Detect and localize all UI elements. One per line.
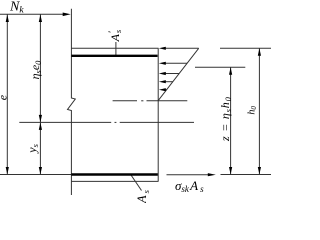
svg-text:e: e [0, 94, 9, 100]
svg-text:Nk: Nk [9, 0, 24, 16]
svg-text:ηse0: ηse0 [28, 60, 43, 80]
svg-text:σskAs: σskAs [175, 178, 204, 194]
svg-text:As: As [135, 189, 151, 203]
svg-text:A′s: A′s [108, 29, 123, 42]
svg-text:z = ηsh0: z = ηsh0 [218, 96, 233, 142]
svg-text:h0: h0 [246, 106, 258, 115]
svg-text:ys: ys [25, 143, 40, 153]
